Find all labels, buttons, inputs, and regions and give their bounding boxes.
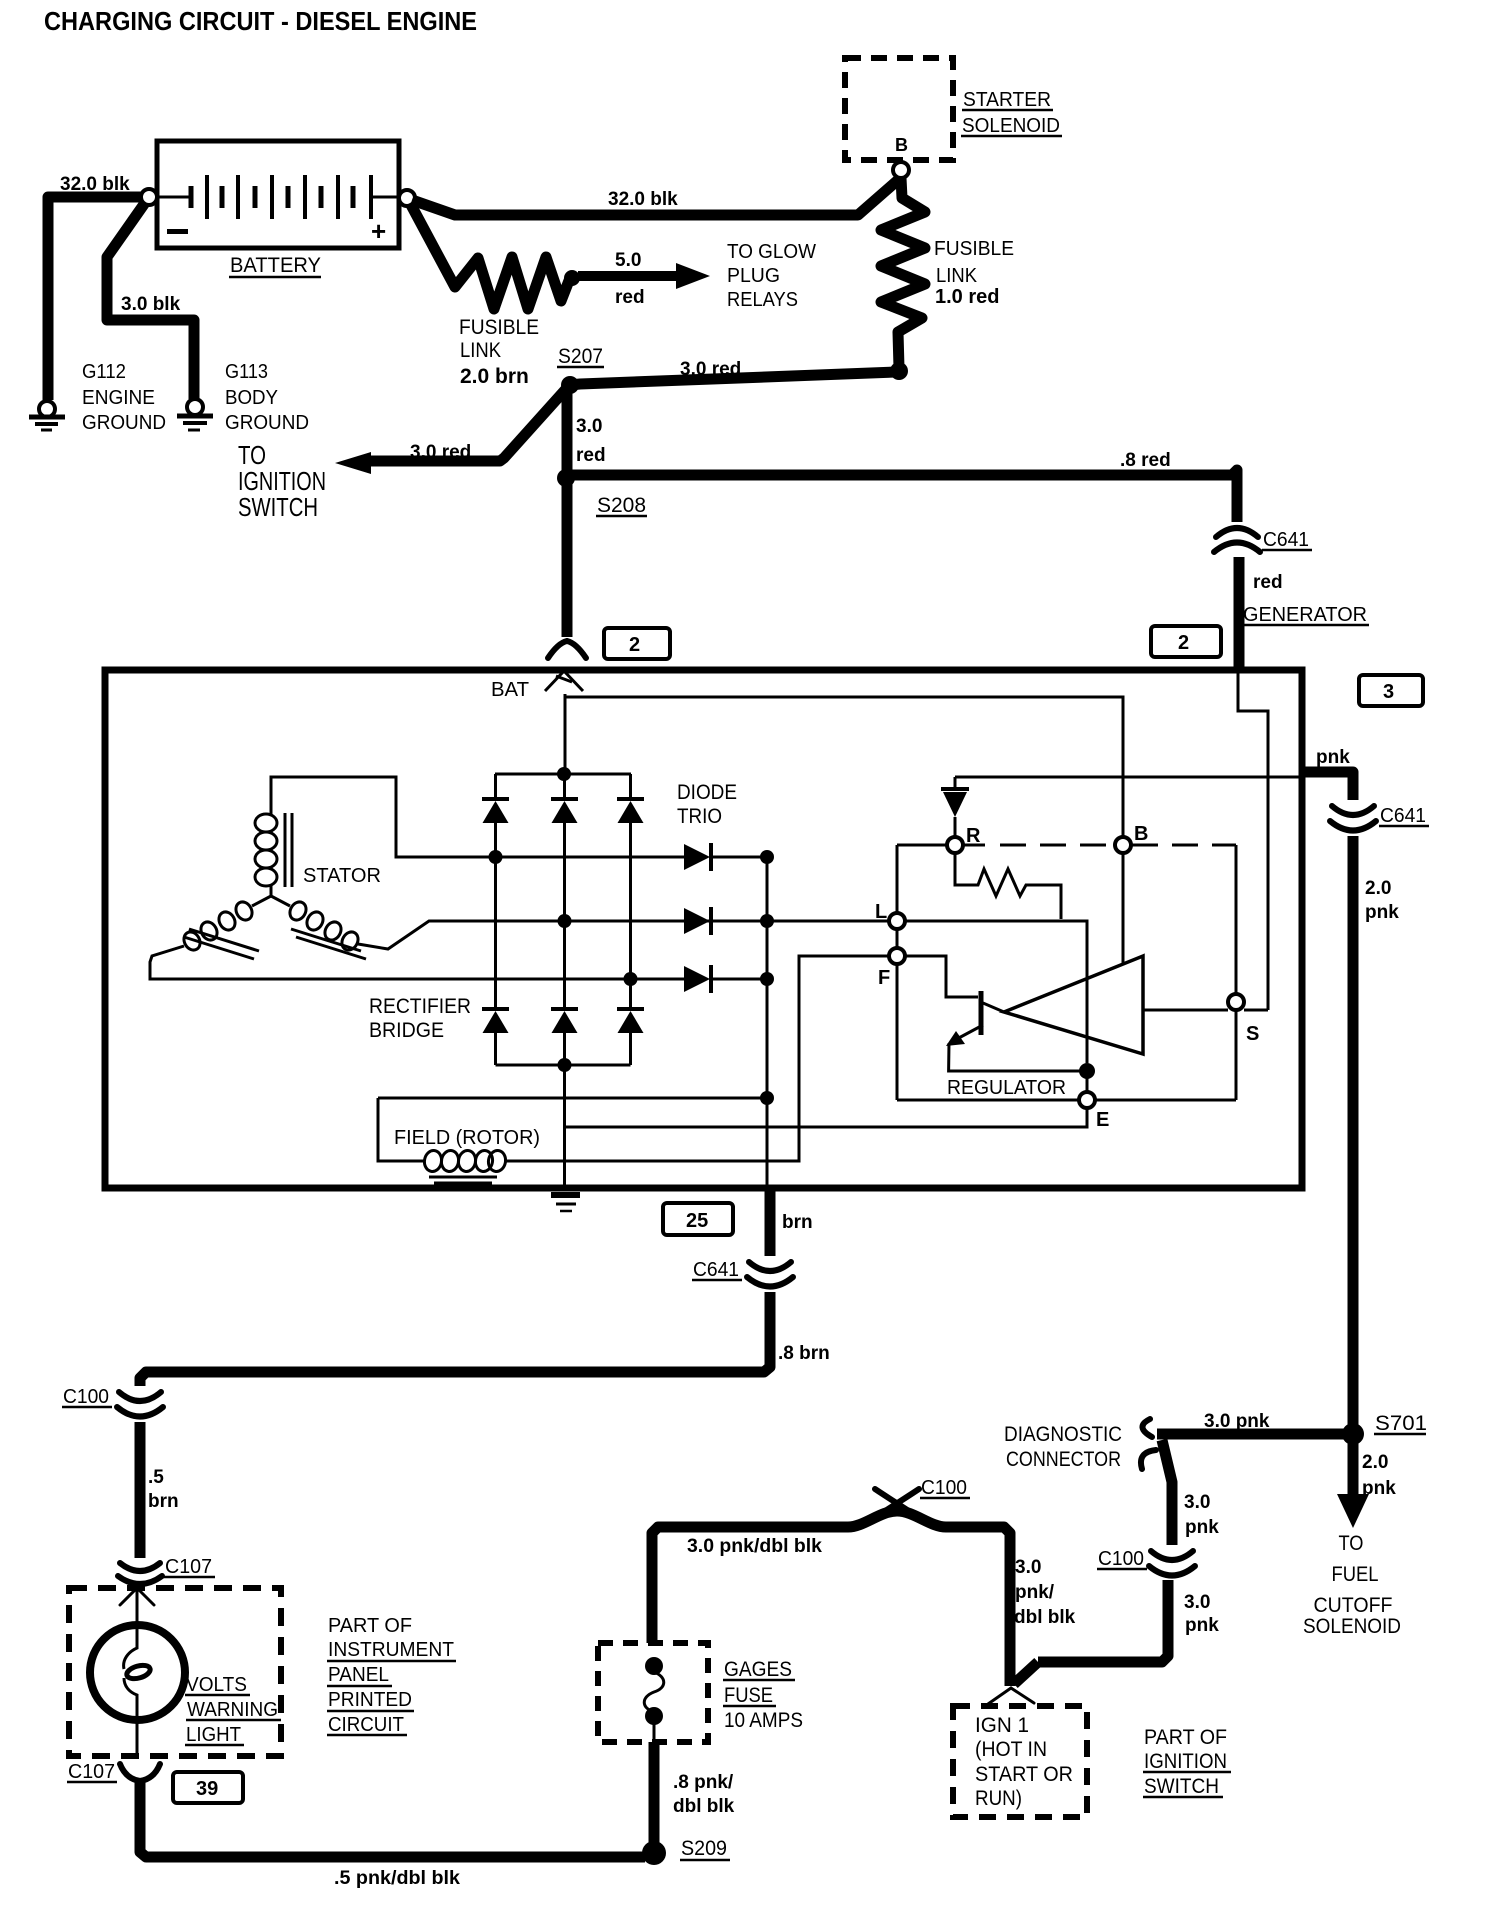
svg-text:GAGES: GAGES	[724, 1658, 792, 1681]
label 3.0 pnk upper	[1184, 1492, 1219, 1538]
F terminal	[889, 948, 905, 964]
svg-text:CHARGING CIRCUIT - DIESEL ENGI: CHARGING CIRCUIT - DIESEL ENGINE	[44, 6, 477, 36]
junction BAT / diode trio	[557, 767, 571, 781]
svg-text:LINK: LINK	[936, 265, 978, 287]
wire .5 brn C100 to C107	[135, 1422, 146, 1558]
stator Y center	[252, 884, 290, 906]
svg-text:.5 pnk/dbl blk: .5 pnk/dbl blk	[334, 1868, 460, 1889]
wire 3.0 red arrow to ignition switch	[335, 389, 566, 474]
svg-text:.8 brn: .8 brn	[778, 1343, 830, 1364]
svg-text:3.0: 3.0	[1015, 1557, 1041, 1578]
wire 32.0 blk battery positive to starter solenoid B	[412, 174, 901, 215]
label VOLTS WARNING LIGHT	[186, 1674, 278, 1746]
svg-text:CUTOFF: CUTOFF	[1314, 1594, 1393, 1617]
wire S to BAT sense	[1244, 1009, 1268, 1012]
svg-text:VOLTS: VOLTS	[186, 1674, 247, 1696]
svg-text:39: 39	[196, 1778, 218, 1800]
phase 1 collector junction	[760, 850, 774, 864]
rectifier lower right diode	[617, 1009, 644, 1065]
stator vertical coil	[255, 813, 292, 887]
svg-text:RELAYS: RELAYS	[727, 289, 798, 311]
svg-text:3.0 red: 3.0 red	[680, 359, 741, 380]
svg-text:dbl blk: dbl blk	[1014, 1607, 1076, 1628]
svg-text:LINK: LINK	[460, 339, 501, 362]
svg-text:REGULATOR: REGULATOR	[947, 1077, 1066, 1099]
connector C100 (pnk wire)	[1149, 1551, 1195, 1576]
splice S209	[642, 1841, 666, 1865]
field junction at collector	[760, 1091, 774, 1105]
label FUSIBLE LINK 2.0 brn	[459, 316, 539, 388]
wire pnk outside generator	[1300, 772, 1353, 800]
svg-text:32.0 blk: 32.0 blk	[60, 174, 130, 195]
wire 3.0 red S207 to S208	[562, 385, 573, 477]
connector wings at generator BAT input	[548, 641, 586, 658]
phase 3 junction	[624, 972, 638, 986]
connector C641 (red wire)	[1214, 528, 1260, 552]
svg-text:INSTRUMENT: INSTRUMENT	[328, 1639, 454, 1661]
svg-text:GENERATOR: GENERATOR	[1243, 604, 1367, 626]
svg-text:TO GLOW: TO GLOW	[727, 241, 816, 263]
svg-text:pnk: pnk	[1316, 747, 1350, 768]
phase 2 collector junction	[760, 914, 774, 928]
svg-text:10 AMPS: 10 AMPS	[724, 1709, 803, 1732]
diode trio right diode	[617, 774, 644, 823]
rectifier lower middle diode	[551, 1009, 578, 1065]
stator phase 2 wire	[358, 921, 889, 949]
svg-text:FUSIBLE: FUSIBLE	[934, 238, 1014, 260]
rectifier bridge middle column	[563, 823, 566, 1009]
svg-text:SOLENOID: SOLENOID	[962, 115, 1060, 137]
wire 5.0 red arrow to glow plug relays	[578, 263, 710, 289]
connector C641 (brn wire)	[747, 1262, 793, 1287]
phase 3 output diode	[684, 965, 767, 993]
phase 1 output diode	[684, 843, 767, 871]
svg-text:3: 3	[1383, 681, 1394, 703]
connector C100 (brn wire)	[117, 1392, 163, 1417]
svg-text:3.0: 3.0	[1184, 1592, 1210, 1613]
ground G113	[177, 399, 213, 430]
svg-text:SWITCH: SWITCH	[238, 492, 318, 522]
svg-text:SWITCH: SWITCH	[1144, 1775, 1219, 1798]
wire BAT to B terminal	[565, 697, 1123, 838]
svg-text:5.0: 5.0	[615, 250, 641, 271]
rectifier bridge left column	[494, 823, 497, 1009]
label DIAGNOSTIC CONNECTOR	[1004, 1423, 1122, 1471]
battery positive terminal	[399, 190, 415, 206]
svg-text:C641: C641	[693, 1259, 739, 1281]
label PART OF INSTRUMENT PANEL PRINTED CIRCUIT	[328, 1615, 454, 1736]
svg-text:C641: C641	[1263, 529, 1309, 551]
wire 3.0 pnk IGN1 to C100 to diagnostic	[1038, 1580, 1168, 1662]
svg-text:2.0: 2.0	[1362, 1452, 1388, 1473]
label RECTIFIER BRIDGE	[369, 995, 471, 1042]
connector C107 (top)	[118, 1563, 162, 1584]
wire 3.0 pnk/dbl blk fuse to C100 to IGN1	[652, 1511, 1010, 1686]
svg-text:1.0 red: 1.0 red	[935, 286, 999, 308]
field rotor outline left	[378, 1098, 424, 1161]
svg-text:START OR: START OR	[975, 1763, 1073, 1786]
rectifier bridge bottom rail	[496, 1064, 631, 1067]
svg-text:PLUG: PLUG	[727, 265, 780, 287]
svg-text:2.0 brn: 2.0 brn	[460, 365, 529, 388]
svg-text:PANEL: PANEL	[328, 1664, 389, 1686]
generator internal ground	[551, 1195, 580, 1211]
svg-text:pnk: pnk	[1365, 902, 1399, 923]
svg-text:3.0 pnk/dbl blk: 3.0 pnk/dbl blk	[687, 1536, 822, 1557]
svg-text:.5: .5	[148, 1467, 164, 1488]
svg-text:BATTERY: BATTERY	[230, 254, 321, 277]
svg-text:IGNITION: IGNITION	[1144, 1750, 1227, 1773]
wire to bulb	[136, 1590, 139, 1627]
svg-text:S701: S701	[1375, 1412, 1427, 1435]
svg-text:3.0 pnk: 3.0 pnk	[1204, 1411, 1270, 1432]
wire B to amplifier	[1122, 853, 1125, 963]
svg-text:STATOR: STATOR	[303, 865, 381, 887]
junction L/E	[1079, 1063, 1095, 1079]
amplifier triangle	[1004, 956, 1143, 1054]
rectifier bridge right column	[629, 823, 632, 1009]
label DIODE TRIO	[677, 781, 737, 828]
svg-text:25: 25	[686, 1210, 708, 1232]
svg-text:FUSIBLE: FUSIBLE	[459, 316, 539, 339]
label 2.0 pnk	[1365, 878, 1399, 923]
svg-text:32.0 blk: 32.0 blk	[608, 189, 678, 210]
label TO GLOW PLUG RELAYS	[727, 241, 816, 311]
svg-text:2.0: 2.0	[1365, 878, 1391, 899]
fusible link 1.0 red (zigzag)	[881, 178, 925, 368]
connector page box 25	[663, 1203, 733, 1235]
label 3.0 pnk/dbl blk vertical	[1014, 1557, 1076, 1628]
svg-text:FUEL: FUEL	[1332, 1563, 1379, 1586]
wire red C641 to generator BAT stub	[1234, 557, 1245, 668]
E terminal	[1079, 1092, 1095, 1108]
svg-text:BODY: BODY	[225, 387, 278, 409]
svg-text:.8 red: .8 red	[1120, 450, 1171, 471]
svg-text:IGN 1: IGN 1	[975, 1714, 1029, 1737]
svg-text:3.0 red: 3.0 red	[410, 442, 471, 463]
battery BT1	[155, 141, 399, 248]
wire brn generator output	[765, 1186, 776, 1256]
S terminal	[1228, 994, 1244, 1010]
wire 3.0 red to S207	[570, 372, 897, 385]
label GAGES FUSE 10 AMPS	[724, 1658, 803, 1732]
wire junction to E	[1086, 1071, 1089, 1092]
wire .5 pnk/dbl blk to S209	[140, 1782, 645, 1857]
svg-text:SOLENOID: SOLENOID	[1303, 1615, 1401, 1638]
wire pnk R diode to case edge	[955, 776, 1302, 779]
label .8 pnk/dbl blk	[673, 1772, 735, 1817]
svg-text:brn: brn	[782, 1212, 813, 1233]
phase 3 collector junction	[760, 972, 774, 986]
svg-text:red: red	[576, 445, 606, 466]
L terminal	[889, 913, 905, 929]
svg-text:ENGINE: ENGINE	[82, 387, 155, 409]
svg-text:.8 pnk/: .8 pnk/	[673, 1772, 734, 1793]
svg-text:pnk: pnk	[1185, 1615, 1219, 1636]
svg-text:FIELD (ROTOR): FIELD (ROTOR)	[394, 1127, 540, 1149]
wire 3.0 pnk to S701	[1157, 1429, 1345, 1440]
wire F to transistor base	[905, 956, 978, 997]
wire .8 red S208 to generator C641	[570, 470, 1237, 522]
svg-text:L: L	[875, 901, 887, 923]
label FUSIBLE LINK 1.0 red	[934, 238, 1014, 308]
wire rectifier collector line	[766, 855, 769, 1186]
diode trio top rail	[495, 773, 631, 776]
solenoid B terminal	[893, 162, 909, 178]
wire 3.0 red S208 down to generator	[562, 483, 573, 637]
junction below fusible link	[890, 362, 908, 380]
diode at R terminal	[941, 777, 969, 837]
svg-text:DIAGNOSTIC: DIAGNOSTIC	[1004, 1423, 1122, 1446]
label IGN 1 (HOT IN START OR RUN)	[975, 1714, 1073, 1810]
label 2.0 pnk arrow	[1362, 1452, 1396, 1499]
svg-text:S: S	[1246, 1023, 1259, 1045]
ignition switch IGN 1 dashed box	[953, 1706, 1087, 1817]
svg-text:B: B	[1134, 823, 1148, 845]
diode trio left diode	[482, 774, 509, 823]
svg-text:FUSE: FUSE	[724, 1684, 773, 1707]
connector page box 2 (right)	[1151, 626, 1221, 657]
svg-text:+: +	[371, 216, 386, 246]
svg-text:CONNECTOR: CONNECTOR	[1006, 1448, 1121, 1471]
stator left coil	[181, 899, 259, 959]
svg-text:BAT: BAT	[491, 679, 529, 701]
splice S208	[557, 469, 575, 487]
phase 2 junction	[558, 914, 572, 928]
svg-text:red: red	[1253, 572, 1283, 593]
svg-text:LIGHT: LIGHT	[186, 1724, 241, 1746]
battery negative terminal	[141, 189, 157, 205]
diagnostic connector terminal	[1141, 1419, 1156, 1469]
svg-text:C100: C100	[1098, 1548, 1144, 1570]
regulator outline	[897, 845, 1236, 1100]
BAT terminal symbol	[545, 671, 583, 691]
connector C107 (bottom)	[120, 1764, 160, 1781]
starter solenoid (dashed box)	[845, 58, 953, 160]
svg-text:TRIO: TRIO	[677, 805, 722, 828]
wire 3.0 pnk C100 to diagnostic connector	[1162, 1440, 1172, 1545]
gages fuse element	[644, 1657, 664, 1742]
terminal arrow into panel	[120, 1588, 154, 1605]
label .5 brn	[148, 1467, 179, 1512]
field rotor top wire	[378, 1097, 767, 1100]
wire L line	[905, 921, 1087, 1063]
svg-text:pnk/: pnk/	[1015, 1582, 1055, 1603]
svg-text:(HOT IN: (HOT IN	[975, 1738, 1047, 1761]
gages fuse dashed box	[598, 1643, 708, 1742]
label STARTER SOLENOID	[962, 89, 1060, 137]
svg-text:C107: C107	[68, 1761, 115, 1783]
instrument panel dashed box	[69, 1588, 281, 1756]
svg-text:C641: C641	[1380, 805, 1426, 827]
regulator resistor R to L	[955, 853, 1061, 919]
rectifier lower left diode	[482, 1009, 509, 1065]
svg-text:STARTER: STARTER	[963, 89, 1051, 111]
transistor Q1	[946, 991, 1080, 1071]
svg-text:PRINTED: PRINTED	[328, 1689, 412, 1711]
svg-text:B: B	[895, 135, 908, 155]
svg-text:GROUND: GROUND	[225, 412, 309, 434]
svg-text:WARNING: WARNING	[187, 1699, 278, 1721]
svg-text:TO: TO	[1339, 1532, 1364, 1555]
stator phase 3 wire	[150, 946, 684, 979]
svg-text:3.0 blk: 3.0 blk	[121, 294, 181, 315]
B terminal	[1115, 837, 1131, 853]
wire BAT sense from stub	[1238, 672, 1268, 1010]
svg-text:red: red	[615, 287, 645, 308]
splice S701	[1342, 1423, 1364, 1445]
label 5.0 red	[615, 250, 645, 308]
svg-text:G112: G112	[82, 361, 126, 383]
stator phase 1 wire	[271, 777, 684, 857]
wire .8 pnk/dbl blk fuse to S209	[649, 1742, 660, 1851]
fusible link 2.0 brn (zigzag from battery positive)	[410, 203, 570, 309]
ground G112	[29, 401, 65, 430]
svg-text:C100: C100	[921, 1477, 967, 1499]
phase 1 junction	[489, 850, 503, 864]
wire field coil to F terminal	[504, 956, 890, 1161]
connector C641 (pnk wire)	[1330, 806, 1376, 831]
svg-text:C100: C100	[63, 1386, 109, 1408]
wire 2.0 pnk arrow to fuel cutoff solenoid	[1337, 1440, 1369, 1528]
node at end of 2.0 brn link	[564, 270, 580, 286]
splice S207	[561, 376, 579, 394]
svg-text:G113: G113	[225, 361, 268, 383]
diode trio middle diode	[551, 774, 578, 823]
label 3.0 red wire	[576, 416, 606, 466]
label G113 BODY GROUND	[225, 361, 309, 434]
label G112 ENGINE GROUND	[82, 361, 166, 434]
wire 2.0 pnk down to S701	[1348, 836, 1359, 1434]
wire .8 brn to instrument panel	[140, 1292, 770, 1386]
svg-text:RECTIFIER: RECTIFIER	[369, 995, 471, 1018]
R terminal	[947, 837, 963, 853]
svg-text:3.0: 3.0	[576, 416, 602, 437]
svg-text:S209: S209	[681, 1837, 727, 1860]
svg-text:C107: C107	[165, 1556, 212, 1578]
svg-text:pnk: pnk	[1185, 1517, 1219, 1538]
svg-text:R: R	[966, 825, 981, 847]
connector page box 39	[173, 1772, 243, 1803]
svg-text:RUN): RUN)	[975, 1787, 1022, 1810]
svg-text:2: 2	[629, 634, 640, 656]
terminal arrow into ignition switch	[988, 1688, 1034, 1704]
label 3.0 pnk lower	[1184, 1592, 1219, 1636]
svg-text:S208: S208	[597, 494, 646, 517]
svg-text:PART OF: PART OF	[328, 1615, 412, 1637]
generator case	[105, 670, 1302, 1188]
svg-text:CIRCUIT: CIRCUIT	[328, 1714, 404, 1736]
label TO FUEL CUTOFF SOLENOID	[1303, 1532, 1401, 1638]
junction bottom rail to ground	[558, 1058, 572, 1072]
connector page box 2 (left)	[604, 628, 670, 659]
phase 2 output diode	[684, 907, 711, 935]
wire 32.0 blk battery negative to G112	[48, 197, 146, 400]
stator right coil	[287, 899, 366, 959]
svg-text:dbl blk: dbl blk	[673, 1796, 735, 1817]
svg-text:F: F	[878, 967, 890, 989]
wire rectifier ground column	[563, 1065, 566, 1189]
svg-text:PART OF: PART OF	[1144, 1726, 1227, 1749]
svg-text:pnk: pnk	[1362, 1478, 1396, 1499]
svg-text:BRIDGE: BRIDGE	[369, 1019, 444, 1042]
wire 3.0 blk battery negative to G113	[107, 200, 194, 399]
svg-text:2: 2	[1178, 632, 1189, 654]
wire step to ignition terminal	[1014, 1662, 1038, 1684]
connector C100 crossing symbol	[875, 1489, 919, 1517]
svg-text:S207: S207	[558, 345, 603, 368]
field rotor coil	[423, 1149, 507, 1183]
label TO IGNITION SWITCH	[238, 440, 326, 522]
connector page box 3	[1359, 675, 1423, 706]
wire BAT vertical inside generator	[564, 694, 567, 772]
label PART OF IGNITION SWITCH	[1144, 1726, 1227, 1798]
svg-text:E: E	[1096, 1109, 1109, 1131]
wire E to ground rail	[566, 1108, 1087, 1127]
svg-text:brn: brn	[148, 1491, 179, 1512]
svg-text:3.0: 3.0	[1184, 1492, 1210, 1513]
svg-text:DIODE: DIODE	[677, 781, 737, 804]
volts warning light bulb	[90, 1625, 185, 1753]
svg-text:GROUND: GROUND	[82, 412, 166, 434]
wire amplifier to S	[1143, 1009, 1228, 1012]
